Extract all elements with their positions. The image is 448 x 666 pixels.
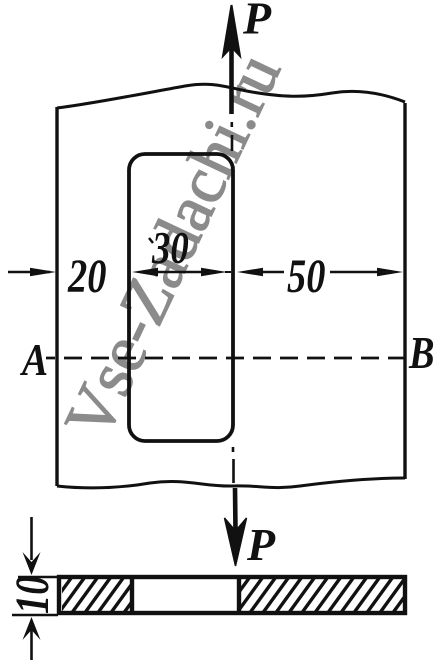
dimension 50: arrows (237, 268, 263, 277)
cross-section bar outline (59, 577, 405, 613)
force arrow P bottom: head (225, 518, 247, 566)
svg-text:10: 10 (6, 576, 59, 614)
hatching right solid part (215, 570, 424, 625)
extension line bar bottom (12, 614, 58, 616)
hatching left solid part (37, 570, 155, 625)
dimension 20: left arrow (8, 271, 50, 273)
plate right edge (403, 103, 406, 479)
svg-text:30: 30 (151, 223, 189, 274)
section boundary left of hole (130, 576, 134, 614)
dimension 30: arrows (132, 268, 158, 277)
svg-text:P: P (246, 519, 276, 570)
force arrow P bottom: shaft (233, 488, 238, 531)
svg-text:50: 50 (287, 250, 325, 303)
plate top wavy edge (57, 84, 405, 108)
section line A-B dashed (46, 357, 406, 360)
section boundary right of hole (237, 576, 241, 614)
svg-text:P: P (242, 0, 272, 44)
dimension 10: upper arrow (30, 517, 33, 560)
svg-text:20: 20 (67, 250, 106, 303)
svg-text:A: A (19, 335, 48, 386)
plate bottom wavy edge (57, 478, 405, 488)
force arrow P top: head (223, 5, 240, 56)
force arrow P top: shaft (229, 46, 234, 114)
plate left edge (55, 107, 58, 486)
hole rounded rectangle (129, 154, 233, 441)
svg-text:B: B (408, 329, 434, 379)
centerline dash-dot upper (231, 122, 234, 151)
tick before 30 (149, 238, 153, 243)
centerline dash-dot lower (232, 447, 235, 483)
extension line bar top (18, 576, 58, 578)
dimension 10: lower arrow (30, 630, 33, 660)
